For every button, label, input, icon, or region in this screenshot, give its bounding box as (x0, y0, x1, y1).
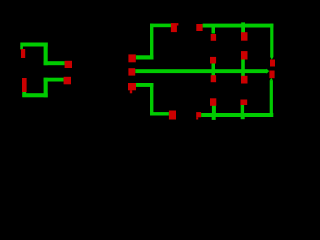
wire stub A top (212, 27, 216, 34)
wire stub B bottom (241, 105, 244, 114)
pad P3 tail (130, 90, 132, 93)
pad E1 right column upper (270, 60, 275, 67)
wire left mid bar upper (44, 61, 65, 65)
pad A2 column A upper component bottom (210, 57, 216, 64)
pad R2 left circuit right bottom (64, 77, 71, 85)
pad A3 column A lower component top (211, 75, 216, 82)
wire right riser lower arrow tip (270, 78, 273, 81)
pad P2 middle left center (128, 68, 135, 75)
pad B4 column B lower component bottom (240, 100, 247, 106)
pad B3 column B lower component top (241, 76, 248, 84)
pad A4 column A lower component bottom (210, 98, 216, 106)
pad P1 middle left top (128, 54, 135, 62)
wire stub A mid-upper (212, 63, 216, 69)
wire left top bar (20, 43, 47, 47)
wire top trace left segment (150, 24, 171, 28)
wire right riser upper arrow tip (270, 57, 273, 60)
pad B2 column B upper component bottom (241, 51, 248, 59)
wire stub B top (241, 22, 245, 32)
wire left bottom bar (22, 93, 47, 97)
pad P3 middle left bottom (128, 83, 136, 90)
pad B1 column B upper component top (241, 32, 248, 41)
wire left vertical lower (44, 78, 48, 98)
wire stub A mid-lower (212, 73, 216, 76)
wire left mid bar lower (44, 78, 64, 82)
wire top trace right segment (203, 24, 274, 28)
wire stub A bottom (212, 106, 216, 114)
pad F2 tail (196, 117, 198, 119)
pad E2 right column lower (269, 71, 274, 79)
wire right riser upper (270, 24, 273, 57)
pad L1 left connector top (21, 49, 25, 58)
pad T2 notch (177, 23, 179, 25)
wire right riser lower (270, 80, 273, 117)
pad F2 bottom trace right component (196, 112, 201, 117)
pad R1 left circuit right top (65, 61, 72, 68)
wire bottom trace right segment (201, 113, 273, 117)
wire bottom trace left segment (150, 112, 169, 115)
pad L2 left connector bottom (22, 78, 27, 92)
wire left vertical upper (44, 43, 48, 66)
wire node P1 horizontal (136, 55, 154, 59)
wire junction tab B below bottom trace (241, 117, 245, 119)
pad F1 bottom trace left component (169, 111, 176, 120)
wire left riser upper (150, 24, 153, 60)
pad A1 column A upper component top (211, 34, 216, 41)
wire junction tab A below bottom trace (212, 117, 216, 120)
wire left top stub (20, 46, 23, 50)
wire riser B middle (241, 59, 245, 76)
wire left riser lower (150, 83, 153, 116)
wire middle trace (135, 69, 266, 73)
wire left bottom stub (22, 92, 26, 98)
wire node P3 horizontal (136, 83, 153, 87)
pad T2 top trace left component (171, 23, 177, 32)
pad T3 top trace right component (196, 24, 202, 31)
wire middle trace arrow tip (267, 69, 270, 74)
